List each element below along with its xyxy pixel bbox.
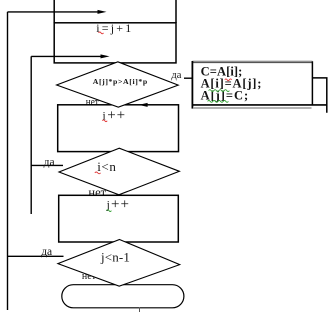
- diamond A[j]*p>A[i]*p: [57, 62, 179, 107]
- svg-text:да: да: [41, 246, 52, 258]
- squiggle red under i of i<n: [95, 172, 101, 174]
- squiggle green under line 2: [209, 90, 230, 92]
- svg-text:j++: j++: [106, 197, 130, 213]
- wire: inner loop top horizontal with arrow (over box): [31, 55, 101, 57]
- arrowhead: outer loop top: [98, 10, 107, 14]
- box i=j+1: [54, 23, 176, 63]
- swap box right border: [311, 61, 313, 105]
- box i++: [58, 105, 179, 152]
- svg-text:A[j]*p>A[i]*p: A[j]*p>A[i]*p: [93, 77, 148, 86]
- wire: swap box right side down: [312, 78, 326, 113]
- squiggle red under i of i=j+1: [99, 32, 104, 34]
- svg-text:j<n-1: j<n-1: [100, 249, 130, 264]
- swap box top border grey light part: [192, 60, 312, 62]
- stub below oval: [139, 308, 141, 312]
- wire: da to swap box: [184, 77, 193, 79]
- diamond i<n (drawn over i++ box bottom): [59, 148, 179, 195]
- svg-text:i<n: i<n: [97, 159, 116, 174]
- swap box white fill: [192, 61, 312, 105]
- box j++: [59, 195, 179, 242]
- wire: i<n da branch horizontal: [31, 164, 63, 166]
- wire: j<n-1 da branch horizontal: [8, 255, 64, 257]
- box i=j+1 : vertical stubs above: [53, 0, 55, 23]
- swap box grey shadow bottom: [193, 107, 312, 109]
- swap box left border: [191, 61, 193, 109]
- wire: inner loop vertical x=31: [30, 56, 32, 214]
- svg-text:да: да: [44, 156, 55, 168]
- squiggle green under line 3: [208, 101, 229, 103]
- arrowhead: from swap box into i++ box top edge, pointing left: [139, 103, 148, 107]
- squiggle red under i in line 1: [225, 79, 232, 81]
- wire: outer loop top horizontal with arrow: [8, 11, 100, 13]
- svg-text:да: да: [171, 70, 181, 81]
- svg-text:i=j+1: i=j+1: [96, 21, 133, 35]
- swap box top border dark part: [192, 62, 312, 64]
- wire: outer loop vertical (left edge): [7, 12, 9, 310]
- arrowhead: inner loop top: [101, 54, 110, 58]
- diamond j<n-1 (drawn over j++ box bottom and oval top): [58, 240, 180, 287]
- squiggle red under i of i++: [102, 120, 107, 122]
- swap box bottom border extending to right wire: [192, 104, 327, 106]
- oval terminator: [62, 285, 184, 308]
- squiggle green under j of j++: [107, 210, 112, 212]
